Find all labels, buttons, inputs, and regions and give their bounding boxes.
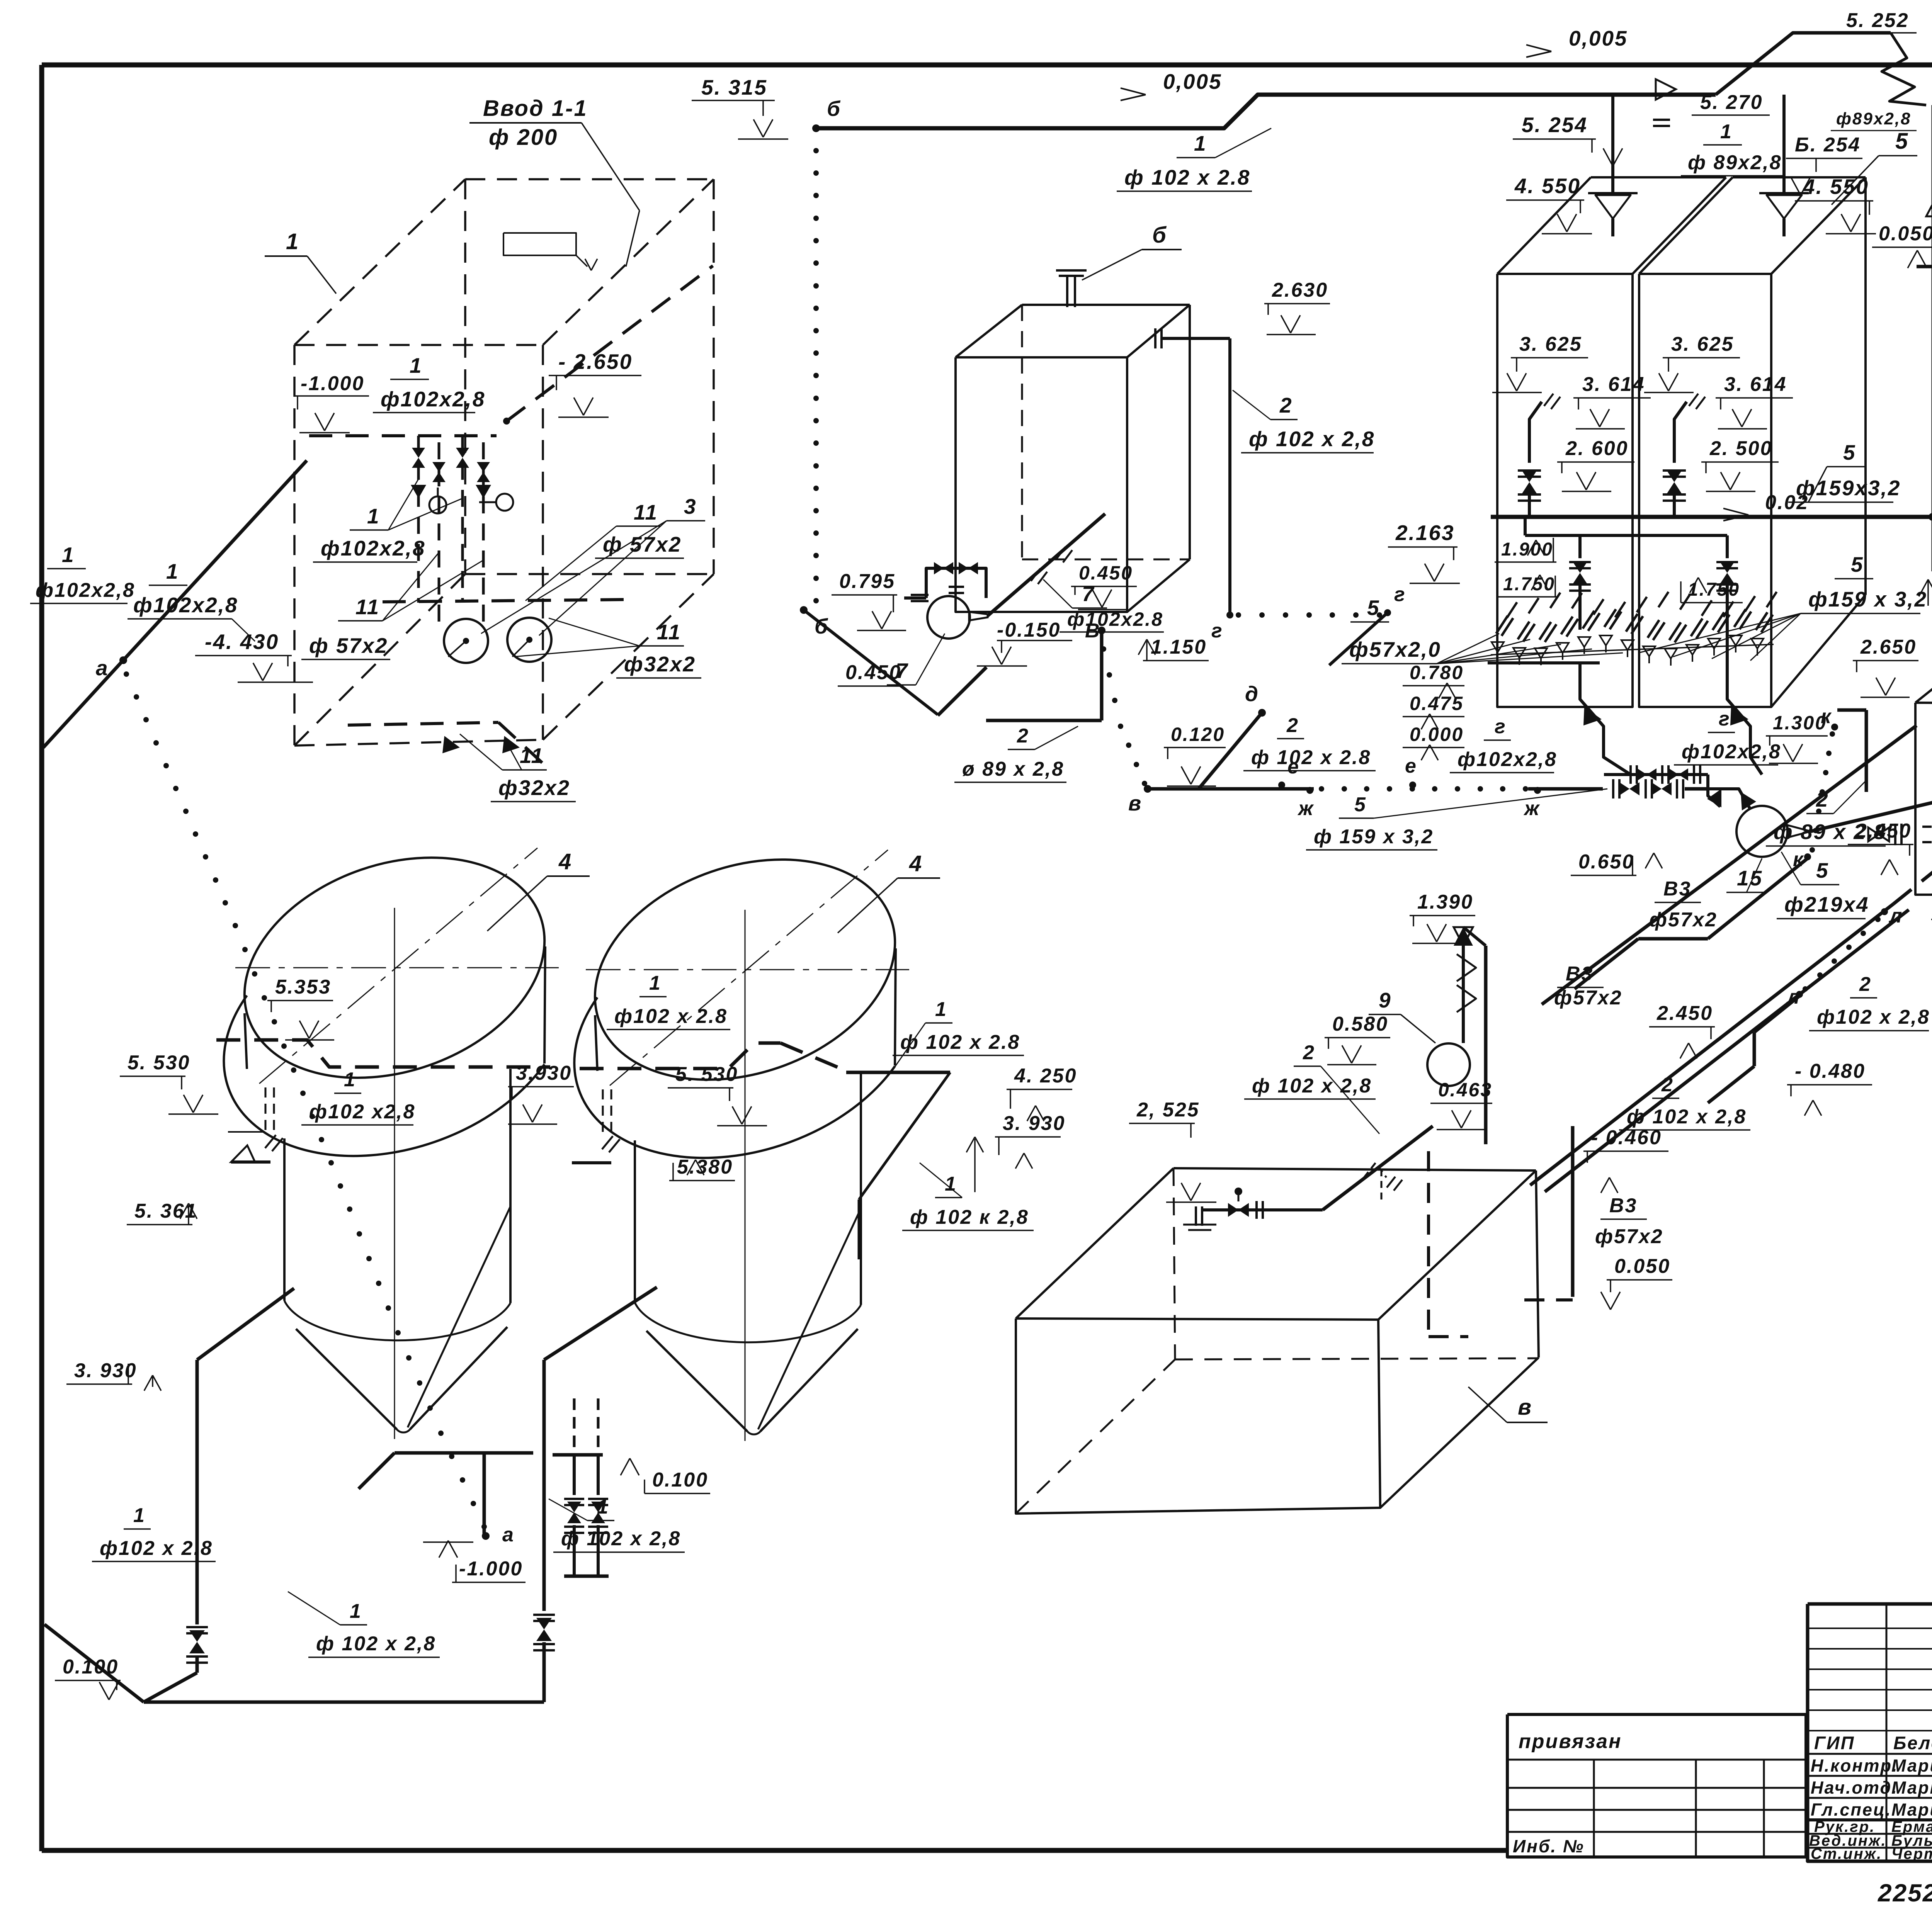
tank 1 inlet dashed pipe across (216, 1040, 550, 1067)
tank 4 body sides (283, 1138, 286, 1301)
svg-text:1.900: 1.900 (1501, 539, 1553, 560)
svg-text:В: В (1085, 620, 1101, 642)
tank 4 top ellipse (565, 821, 925, 1118)
svg-text:5: 5 (1843, 440, 1856, 464)
right funnel (1759, 192, 1809, 194)
tank 4 big cone outline (408, 1206, 510, 1427)
sprinkler grid nozzles (1492, 609, 1773, 666)
box в front face (1016, 1318, 1380, 1514)
dashed vertical x3697 (1427, 1151, 1430, 1337)
svg-text:5. 252: 5. 252 (1846, 9, 1909, 32)
pit manifold valves (412, 448, 425, 468)
svg-text:ф 102 х 2.8: ф 102 х 2.8 (1251, 746, 1371, 769)
tank 4 cone (296, 1329, 397, 1429)
svg-text:7: 7 (1082, 582, 1095, 606)
svg-text:3. 625: 3. 625 (1519, 333, 1582, 355)
svg-text:г: г (1495, 715, 1507, 738)
svg-text:3. 614: 3. 614 (1582, 373, 1645, 396)
pipe dashed through box м (1893, 730, 1932, 904)
pump 7 discharge reducer (969, 612, 988, 620)
tank 4 centerline dash-dot horizontal (586, 969, 909, 970)
svg-text:Марионков: Марионков (1891, 1800, 1932, 1820)
svg-text:Мартынов: Мартынов (1891, 1778, 1932, 1797)
svg-text:1: 1 (350, 1600, 362, 1622)
projection dotted В-в (1101, 646, 1106, 652)
svg-text:ф32х2: ф32х2 (498, 776, 570, 800)
tank б outlet flange (1155, 328, 1162, 348)
pipe tank2 drain diagonal (544, 1287, 657, 1360)
left column valve (1518, 471, 1541, 477)
svg-text:г: г (1719, 708, 1731, 730)
node к lower (1804, 853, 1811, 860)
bottom run pipe (144, 1701, 544, 1704)
svg-text:1: 1 (344, 1069, 356, 1091)
В3 riser vertical pipe (1932, 105, 1932, 571)
node в (1144, 785, 1151, 793)
pipe 1 from node а to pit (123, 460, 307, 660)
svg-text:0.450: 0.450 (1079, 562, 1133, 584)
svg-text:1: 1 (1194, 131, 1207, 155)
svg-text:ф 57х2: ф 57х2 (603, 532, 682, 556)
manifold riser right valve (1726, 535, 1729, 558)
svg-text:5. 530: 5. 530 (675, 1063, 738, 1086)
pit manifold vertical pipes dashed (417, 436, 420, 603)
node И upper (1929, 513, 1932, 521)
svg-text:а: а (502, 1524, 515, 1546)
svg-text:9: 9 (1379, 988, 1392, 1012)
svg-text:2.630: 2.630 (1272, 279, 1328, 301)
svg-text:ф 102 х 2.8: ф 102 х 2.8 (900, 1031, 1020, 1053)
pipe up from pump 9 riser (1463, 927, 1486, 946)
svg-text:Ввод 1-1: Ввод 1-1 (483, 96, 588, 121)
svg-text:3. 625: 3. 625 (1671, 333, 1734, 355)
svg-text:ф 57х2: ф 57х2 (309, 634, 388, 657)
pipe rise to 5.252 (1716, 33, 1891, 95)
svg-text:ø 89 х 2,8: ø 89 х 2,8 (962, 758, 1064, 780)
svg-text:Белоус: Белоус (1893, 1733, 1932, 1753)
pipe ж segment (1528, 787, 1603, 791)
tank б vent chimney (1066, 275, 1068, 307)
svg-text:11: 11 (355, 595, 380, 619)
svg-text:-4. 430: -4. 430 (205, 630, 279, 654)
dashed link at 4070 bottom (1524, 1298, 1573, 1301)
double diagonal pipes to box м (1530, 904, 1893, 1185)
tank 4 top ellipse (215, 819, 575, 1116)
svg-text:в: в (1518, 1395, 1532, 1420)
svg-text:ф 159 х 3,2: ф 159 х 3,2 (1314, 826, 1434, 848)
tank 4 cone (646, 1331, 747, 1431)
grid downpipes zigzag left (1580, 663, 1631, 775)
svg-text:-1.000: -1.000 (301, 372, 364, 395)
tank 4 lid side edges (245, 1013, 247, 1069)
svg-text:0.120: 0.120 (1171, 724, 1225, 745)
flanged valve pair before pump 15 (1613, 779, 1619, 799)
svg-text:ж: ж (1523, 797, 1540, 820)
pipe в-е (1149, 787, 1314, 791)
node е left (1278, 782, 1285, 788)
svg-text:ф57х2: ф57х2 (1554, 987, 1622, 1009)
svg-text:0.100: 0.100 (63, 1656, 119, 1678)
svg-text:5: 5 (1816, 858, 1829, 882)
box в top face (1016, 1168, 1173, 1318)
flange cluster at box м inlet (1895, 824, 1901, 845)
node б upper (812, 124, 820, 132)
svg-text:г: г (1394, 583, 1406, 606)
svg-text:ф159 х 3,2: ф159 х 3,2 (1808, 587, 1927, 611)
projection line б-б dotted (813, 148, 819, 153)
svg-text:0.000: 0.000 (1410, 724, 1464, 745)
svg-text:2. 500: 2. 500 (1709, 437, 1773, 460)
hydrocyclone circles in pit (444, 619, 488, 663)
wash pipe horizontal (1259, 1208, 1323, 1211)
manifold horizontal 3.761 (395, 1451, 533, 1455)
svg-text:Чертков: Чертков (1891, 1845, 1932, 1862)
svg-text:1.150: 1.150 (1151, 636, 1207, 658)
svg-text:ф32х2: ф32х2 (624, 652, 696, 676)
right funnel riser (1782, 95, 1786, 193)
pump 9 circle (1427, 1043, 1470, 1086)
pipe to bottom run left (144, 1673, 197, 1702)
pump 7 circle (927, 596, 970, 639)
pipe dashed diagonal through pit box (507, 266, 713, 421)
svg-text:ф102х2,8: ф102х2,8 (1458, 748, 1557, 771)
svg-text:привязан: привязан (1519, 1730, 1622, 1753)
svg-text:5: 5 (1851, 552, 1864, 576)
svg-text:ф89х2,8: ф89х2,8 (1836, 109, 1912, 128)
svg-text:3: 3 (684, 494, 697, 518)
pipe tank2 drain vertical (543, 1360, 546, 1611)
svg-text:ф57х2,0: ф57х2,0 (1349, 637, 1441, 661)
svg-text:ф102 х2,8: ф102 х2,8 (309, 1101, 415, 1123)
pipe tank1 drain vertical (196, 1360, 199, 1624)
sprinkler grid hatch row (1507, 592, 1777, 618)
svg-text:2: 2 (1017, 725, 1029, 747)
manifold 1.900 line (1525, 534, 1727, 537)
lower header with flanged valves (1604, 773, 1708, 776)
svg-text:ф102х2,8: ф102х2,8 (381, 387, 485, 411)
svg-text:ф102х2,8: ф102х2,8 (1682, 741, 1781, 763)
svg-text:0.580: 0.580 (1332, 1013, 1388, 1035)
svg-text:д: д (1245, 682, 1259, 706)
node ж left (1306, 787, 1313, 794)
svg-text:2.163: 2.163 (1395, 521, 1455, 545)
svg-text:В3: В3 (1566, 963, 1594, 985)
svg-text:2.450: 2.450 (1656, 1002, 1713, 1024)
column 5 right front face (1639, 274, 1771, 707)
svg-text:ф 102 х 2,8: ф 102 х 2,8 (1627, 1106, 1747, 1128)
projection е-е dotted (1319, 786, 1324, 792)
tank 1 rim nozzle dashes (265, 1087, 267, 1131)
node а lower stem (483, 1453, 486, 1534)
В3 horizontal line ф57х2 (1917, 249, 1932, 267)
title block names-table verticals (1886, 1604, 1888, 1861)
wash valve with stem (1203, 1208, 1259, 1211)
pipe from tank б right (1162, 337, 1230, 340)
svg-text:5. 315: 5. 315 (701, 75, 767, 99)
node л lower (1796, 991, 1803, 998)
tank б hidden edges dashed (1021, 305, 1023, 559)
svg-text:ф 89х2,8: ф 89х2,8 (1688, 151, 1782, 174)
svg-text:0.780: 0.780 (1410, 662, 1464, 683)
svg-text:ф102х2,8: ф102х2,8 (133, 593, 238, 617)
svg-text:22529-02: 22529-02 (1878, 1879, 1932, 1907)
zigzag compensator (1882, 33, 1926, 105)
svg-text:0.050: 0.050 (1614, 1255, 1670, 1278)
svg-text:в: в (1128, 791, 1142, 815)
node г left (1226, 612, 1233, 618)
svg-text:Инб. №: Инб. № (1513, 1836, 1585, 1856)
tank 4 body sides (634, 1140, 636, 1303)
svg-text:2: 2 (1279, 393, 1293, 417)
tank 4 lid side edges (595, 1015, 597, 1071)
pump 7 suction flange (911, 595, 929, 601)
tank б top face (956, 305, 1022, 357)
svg-text:1: 1 (410, 353, 423, 377)
pipe from node б lower down-right (804, 610, 938, 715)
svg-text:к: к (1821, 705, 1832, 728)
svg-text:2.650: 2.650 (1860, 636, 1917, 658)
node л upper (1881, 908, 1888, 915)
svg-text:2. 600: 2. 600 (1565, 437, 1629, 460)
left funnel riser (1611, 95, 1614, 193)
В3 riser bottom arrow and sleeve (1919, 579, 1928, 596)
svg-text:3. 930: 3. 930 (1003, 1112, 1066, 1135)
node е right (1409, 782, 1416, 788)
svg-text:2, 525: 2, 525 (1136, 1099, 1200, 1121)
tank2 drain valve (533, 1615, 555, 1621)
pipe 1 main top run (816, 95, 1716, 128)
svg-text:- 0.480: - 0.480 (1795, 1060, 1866, 1082)
backflow preventer dashed (1364, 1163, 1386, 1177)
node В (1098, 627, 1105, 634)
svg-text:ф102 х 2,8: ф102 х 2,8 (1817, 1006, 1930, 1028)
svg-text:л: л (1888, 905, 1903, 927)
svg-text:б: б (1152, 223, 1167, 248)
tank1 drain valve (186, 1627, 208, 1633)
column 5 right top face (1639, 177, 1733, 274)
projection л-л dotted (1875, 917, 1881, 922)
pit bottom dashed pipe (348, 722, 498, 725)
title block names-table rows (1808, 1628, 1932, 1629)
tank 4 rim arc (574, 997, 895, 1158)
projection г-г dotted (1236, 612, 1241, 618)
svg-text:ф 102 х 2,8: ф 102 х 2,8 (316, 1633, 436, 1655)
manifold riser left valve (1578, 535, 1582, 558)
tank 2 inlet dashed pipe across (580, 1043, 781, 1069)
svg-text:5. 530: 5. 530 (128, 1052, 190, 1074)
svg-text:2: 2 (1286, 714, 1299, 737)
svg-text:1: 1 (286, 229, 299, 254)
svg-text:1: 1 (367, 504, 380, 528)
wash pipe flange and hydrant (1196, 1206, 1202, 1226)
svg-text:4. 250: 4. 250 (1014, 1065, 1077, 1087)
svg-text:5.353: 5.353 (275, 976, 331, 998)
pipe from frame to bottom run (44, 1624, 144, 1702)
svg-text:Гл.спец.: Гл.спец. (1811, 1800, 1892, 1820)
svg-text:-1.000: -1.000 (459, 1558, 523, 1580)
svg-text:1: 1 (1720, 121, 1733, 143)
svg-text:2: 2 (1303, 1041, 1315, 1064)
svg-text:7: 7 (896, 659, 909, 683)
box в hidden edges dashed (1173, 1168, 1175, 1359)
column 5 left front face (1497, 274, 1633, 707)
flange marks tank1 left (228, 1131, 263, 1133)
svg-text:3. 930: 3. 930 (74, 1359, 137, 1382)
pit box 1 top face (294, 179, 465, 345)
svg-text:Б. 254: Б. 254 (1795, 134, 1861, 156)
pipe 2 ф89х2.8 long diagonal (1542, 725, 1917, 1004)
svg-text:г: г (1211, 620, 1223, 642)
projection dotted а to tank 4 (124, 671, 129, 677)
svg-text:5. 254: 5. 254 (1522, 113, 1588, 137)
svg-text:Марионков: Марионков (1891, 1756, 1932, 1775)
svg-text:1: 1 (62, 543, 75, 567)
node г right (1384, 609, 1391, 616)
svg-text:11: 11 (634, 500, 658, 524)
svg-text:0,005: 0,005 (1569, 26, 1628, 50)
main collector 0.02 line (1491, 515, 1932, 519)
pit box 1 hatch rectangle on top face (503, 233, 576, 255)
svg-text:ф57х2: ф57х2 (1649, 909, 1718, 931)
svg-text:0,005: 0,005 (1163, 70, 1222, 93)
svg-text:ф102х2,8: ф102х2,8 (36, 579, 135, 601)
svg-text:5. 270: 5. 270 (1700, 91, 1763, 114)
svg-text:0.795: 0.795 (839, 570, 895, 593)
node б lower (800, 606, 808, 614)
title block outer box (1808, 1604, 1932, 1861)
svg-text:2: 2 (1859, 973, 1872, 996)
pump 9 riser with valves (1462, 946, 1465, 1043)
svg-text:5.380: 5.380 (677, 1156, 733, 1178)
inventory table привязан (1507, 1714, 1806, 1857)
box в right face (1536, 1171, 1539, 1357)
node д (1258, 709, 1266, 717)
svg-text:ф219х4: ф219х4 (1784, 892, 1869, 916)
svg-text:В3: В3 (1663, 878, 1691, 900)
pipe at к corner (1837, 708, 1866, 712)
svg-text:ф102х2,8: ф102х2,8 (321, 536, 425, 560)
box м top face edges (1915, 486, 1932, 703)
svg-text:3. 614: 3. 614 (1724, 373, 1787, 396)
svg-text:4. 550: 4. 550 (1514, 174, 1581, 198)
svg-text:ф 200: ф 200 (489, 125, 558, 150)
svg-text:0.100: 0.100 (652, 1469, 708, 1491)
pit box 1 bottom edges (294, 740, 543, 746)
svg-text:0.650: 0.650 (1578, 851, 1634, 873)
pit box 1 vertical edges (293, 345, 296, 746)
svg-text:е: е (1405, 755, 1417, 777)
pipe tank1 drain diagonal (197, 1288, 294, 1360)
tank 4 centerline dash-dot diagonal (259, 848, 537, 1084)
air vent triangle (1926, 203, 1932, 216)
svg-text:ф 102 х 2.8: ф 102 х 2.8 (1124, 165, 1250, 189)
svg-text:1.750: 1.750 (1503, 574, 1555, 595)
pit lower dashed collector (383, 600, 626, 602)
svg-text:- 0.460: - 0.460 (1591, 1126, 1662, 1149)
svg-text:Н.контр.: Н.контр. (1811, 1756, 1898, 1775)
svg-text:Ст.инж.: Ст.инж. (1811, 1845, 1882, 1862)
svg-text:ф 102 х 2,8: ф 102 х 2,8 (561, 1527, 681, 1550)
svg-text:ф102х2.8: ф102х2.8 (1067, 608, 1163, 630)
svg-text:В3: В3 (1609, 1194, 1637, 1217)
pump 15 circle (1736, 806, 1787, 857)
double valves (564, 1499, 584, 1505)
node ж right (1534, 787, 1541, 794)
tank б front face (956, 357, 1127, 612)
pipe 1 continuation to frame left (43, 660, 123, 748)
svg-text:4: 4 (558, 849, 572, 874)
node а upper (119, 656, 127, 664)
tank 4 bottom arc (635, 1303, 861, 1342)
svg-text:ф102 х 2.8: ф102 х 2.8 (614, 1005, 728, 1028)
svg-text:4: 4 (909, 851, 923, 876)
svg-text:1: 1 (935, 998, 947, 1021)
svg-text:ф 102 х 2,8: ф 102 х 2,8 (1252, 1075, 1372, 1097)
pump 15 discharge (1787, 825, 1811, 838)
right column valve (1663, 471, 1686, 477)
tank 4 bottom arc (284, 1301, 510, 1340)
pipe д diagonal (1199, 713, 1262, 789)
svg-text:3.930: 3.930 (516, 1062, 572, 1084)
svg-text:ГИП: ГИП (1814, 1733, 1855, 1753)
svg-text:11: 11 (520, 744, 544, 768)
double risers from tank2 (573, 1398, 576, 1455)
tank 4 rim arc (224, 996, 544, 1156)
svg-text:ф57х2: ф57х2 (1595, 1225, 1663, 1248)
pipe dashed horizontal -1.000 in pit (309, 434, 497, 437)
svg-text:Нач.отд.: Нач.отд. (1811, 1778, 1898, 1797)
right column inner pipe (1674, 402, 1687, 463)
tank 4 centerline vertical (394, 908, 395, 1439)
pressure gauge circles (429, 496, 446, 513)
drop to pump suction (1708, 775, 1720, 807)
box м front face (1915, 703, 1932, 895)
tank 4 centerline dash-dot diagonal (610, 850, 888, 1086)
svg-text:11: 11 (657, 620, 681, 644)
tank б right face (1189, 305, 1191, 559)
svg-text:2: 2 (1661, 1074, 1674, 1096)
svg-text:ф 102 х 2,8: ф 102 х 2,8 (1249, 427, 1375, 451)
svg-text:б: б (827, 97, 841, 121)
column 5 left top face (1497, 177, 1591, 274)
svg-text:5: 5 (1895, 129, 1909, 154)
svg-text:ф 102 к 2,8: ф 102 к 2,8 (910, 1206, 1029, 1228)
pipe vertical at 4070 (1571, 1126, 1575, 1297)
flag and flange on riser 89x2.8 (1656, 79, 1676, 100)
grid downpipes zigzag right (1727, 630, 1762, 775)
wash pipe diagonal up to pump 9 (1323, 1126, 1433, 1210)
left funnel (1588, 192, 1638, 194)
column 5 right back edge (1864, 177, 1867, 595)
svg-text:0.475: 0.475 (1410, 693, 1464, 714)
pipe л to lower left diagonal (1754, 996, 1799, 1032)
pump 7 bypass loop (926, 568, 986, 598)
tank 2 overflow pipe wing (846, 1071, 950, 1074)
tank 4 big cone outline (758, 1208, 861, 1429)
svg-text:0.050: 0.050 (1879, 223, 1932, 245)
svg-text:1.390: 1.390 (1417, 891, 1473, 913)
svg-text:0.450: 0.450 (845, 661, 901, 684)
tank 4 centerline vertical (745, 910, 746, 1441)
svg-text:1: 1 (166, 559, 179, 583)
projection к-к dotted (1830, 731, 1835, 737)
svg-text:5: 5 (1354, 793, 1367, 816)
svg-text:1.300: 1.300 (1773, 712, 1827, 734)
left column inner pipe (1529, 402, 1542, 463)
pump 15 inlet bend (1708, 789, 1750, 809)
pipe 7 rising diagonal (988, 514, 1105, 616)
svg-text:-0.150: -0.150 (997, 619, 1061, 641)
